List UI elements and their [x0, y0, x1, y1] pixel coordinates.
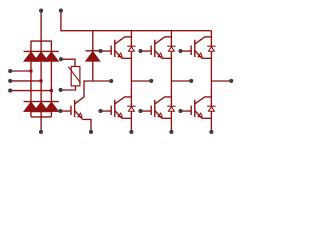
wire NTC top lead [63, 59, 75, 66]
terminal phase W [229, 79, 233, 83]
wire N lead [40, 117, 42, 130]
transistor Q6 emitter [195, 111, 202, 119]
wire Q3 emitter lead [202, 57, 212, 59]
wire riser D3 [50, 41, 52, 52]
transistor Q1 emitter [115, 51, 122, 59]
wire rectifier leg2 [40, 61, 42, 101]
terminal AC input S [8, 79, 12, 83]
wire brake diode cathode lead [92, 31, 94, 51]
rectifier bottom cathode bar [24, 101, 59, 103]
terminal Q2 gate [138, 49, 142, 53]
wire leg V middle vertical [170, 51, 172, 106]
transistor Q6 emitter arrow [198, 113, 202, 117]
wire D5 anode lead [40, 111, 42, 117]
transistor Q4 emitter [115, 111, 122, 119]
transistor Q5 emitter [155, 111, 162, 119]
wire AC input R [12, 70, 31, 72]
terminal N (rectifier DC-) [39, 130, 43, 134]
node junction T-leg3 [50, 89, 53, 92]
wire Q4 gate lead [102, 110, 111, 112]
wire Q2 gate lead [142, 50, 151, 52]
diode D10 [208, 47, 214, 52]
wire leg U phase stub [131, 80, 149, 82]
transistor Q1 body bar [114, 40, 116, 57]
node junction R-leg1 [30, 70, 33, 73]
diode D11 [128, 107, 134, 112]
diode D9 cathode bar [167, 45, 175, 47]
wire NTC bottom lead [62, 86, 75, 90]
terminal phase V [189, 79, 193, 83]
diode D12 cathode bar [167, 105, 175, 107]
rectifier anode bus upper [31, 111, 51, 113]
wire leg V phase stub [171, 80, 189, 82]
wire rectifier leg1 [30, 61, 32, 101]
thermistor RT diagonal [68, 67, 80, 83]
terminal B (brake output) [109, 79, 113, 83]
transistor Q2 emitter [155, 51, 162, 59]
transistor Q1 collector [115, 37, 132, 44]
terminal V emitter [169, 130, 173, 134]
wire brake collector path [75, 81, 93, 104]
wire Q6 gate lead [182, 110, 191, 112]
wire leg W middle vertical [210, 51, 212, 106]
transistor Q6 body bar [194, 100, 196, 117]
transistor Q2 gate bar [150, 46, 152, 56]
wire brake emitter to terminal [83, 119, 91, 129]
diode D3 [44, 52, 59, 62]
transistor Q2 emitter arrow [158, 53, 162, 57]
transistor Q4 emitter arrow [118, 113, 122, 117]
wire Q3 gate lead [182, 50, 191, 52]
transistor Q6 collector [195, 97, 212, 104]
wire Q6 emitter lead [202, 117, 212, 119]
rectifier cathode bus [31, 40, 51, 42]
brake diode D7 cathode bar [86, 50, 101, 52]
thermistor RT body [71, 67, 80, 86]
terminal AC input R [8, 69, 12, 73]
diode D8 [128, 47, 134, 52]
wire leg U bottom vertical [130, 111, 132, 130]
transistor Q4 gate bar [110, 106, 112, 116]
diode D4 [24, 102, 39, 112]
wire leg V collector vertical [170, 31, 172, 47]
terminal brake emitter [89, 130, 93, 134]
wire riser D2 [40, 41, 42, 51]
transistor Q7 gate bar [70, 106, 72, 116]
wire riser D1 [30, 41, 32, 52]
diode D13 [208, 107, 214, 112]
terminal Q4 gate [98, 109, 102, 113]
terminal brake gate [58, 109, 62, 113]
terminal P1 (inverter DC+) [59, 9, 63, 13]
wire rectifier leg3 [50, 61, 52, 101]
transistor Q2 collector [155, 37, 172, 44]
terminal Q6 gate [178, 109, 182, 113]
transistor Q5 body bar [154, 100, 156, 117]
transistor Q7 emitter [75, 111, 83, 120]
transistor Q1 gate bar [110, 46, 112, 56]
transistor Q3 emitter arrow [198, 53, 202, 57]
diode D13 cathode bar [207, 105, 215, 107]
transistor Q7 body bar [74, 100, 76, 117]
diode D6 [44, 102, 59, 112]
terminal P (rectifier DC+) [39, 9, 43, 13]
wire leg U middle vertical [130, 51, 132, 106]
wire Q1 emitter lead [122, 57, 132, 59]
transistor Q2 body bar [154, 40, 156, 57]
wire AC input T [12, 90, 52, 92]
terminal phase U [149, 79, 153, 83]
wire leg U collector vertical [130, 31, 132, 47]
transistor Q3 gate bar [190, 46, 192, 56]
rectifier anode bus lower [31, 116, 51, 118]
brake diode D7 [86, 51, 101, 61]
terminal Q3 gate [178, 49, 182, 53]
transistor Q1 emitter arrow [118, 53, 122, 57]
diode D9 [168, 47, 174, 52]
diode D10 cathode bar [207, 45, 215, 47]
wire brake diode anode down [92, 61, 94, 81]
wire D4 anode lead [30, 111, 32, 117]
diode D1 [24, 52, 39, 62]
terminal NTC top [59, 57, 63, 61]
rectifier top cathode bar [24, 50, 59, 52]
wire Q4 emitter lead [122, 117, 132, 119]
transistor Q5 gate bar [150, 106, 152, 116]
wire leg V bottom vertical [170, 111, 172, 130]
diode D2 [34, 52, 49, 62]
wire Q5 gate lead [142, 110, 151, 112]
wire leg W collector vertical [210, 31, 212, 47]
terminal NTC bottom [59, 88, 63, 92]
terminal Q5 gate [138, 109, 142, 113]
transistor Q4 body bar [114, 100, 116, 117]
wire Q1 gate lead [102, 50, 111, 52]
wire P terminal to rectifier bus [40, 12, 42, 41]
wire P1 down and DC+ rail to inverter [61, 12, 212, 31]
wire leg W bottom vertical [210, 111, 212, 130]
wire brake gate lead [62, 110, 71, 112]
transistor Q3 body bar [194, 40, 196, 57]
terminal U emitter [129, 130, 133, 134]
transistor Q6 gate bar [190, 106, 192, 116]
transistor Q5 emitter arrow [158, 113, 162, 117]
transistor Q4 collector [115, 97, 132, 104]
diode D11 cathode bar [127, 105, 135, 107]
terminal Q1 gate [98, 49, 102, 53]
wire Q2 emitter lead [162, 57, 172, 59]
diode D8 cathode bar [127, 45, 135, 47]
wire AC input S [12, 80, 41, 82]
wire B terminal stub [93, 80, 110, 82]
wire D6 anode lead [50, 111, 52, 117]
wire Q5 emitter lead [162, 117, 172, 119]
transistor Q3 emitter [195, 51, 202, 59]
wire leg W phase stub [211, 80, 229, 82]
terminal AC input T [8, 89, 12, 93]
transistor Q3 collector [195, 37, 212, 44]
transistor Q7 emitter arrow [78, 113, 82, 117]
diode D12 [168, 107, 174, 112]
node junction S-leg2 [40, 79, 43, 82]
terminal W emitter [209, 130, 213, 134]
transistor Q5 collector [155, 97, 172, 104]
diode D5 [34, 102, 49, 112]
